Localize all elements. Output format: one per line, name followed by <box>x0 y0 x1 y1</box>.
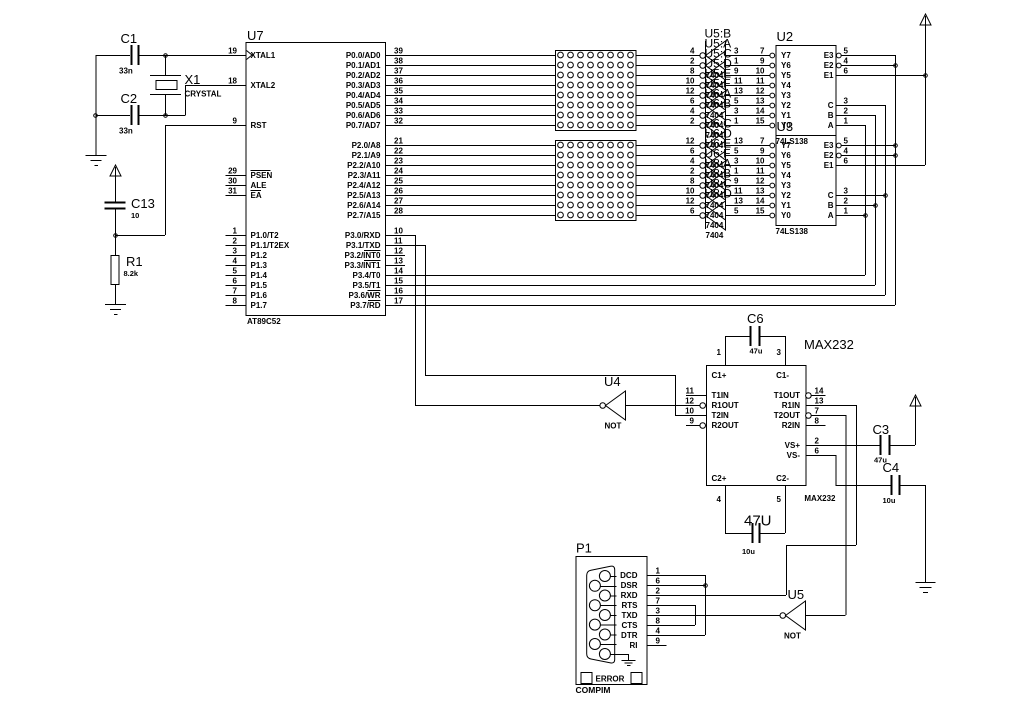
svg-text:T2IN: T2IN <box>712 411 730 420</box>
MAX232 pin 13 R1IN <box>782 397 824 410</box>
svg-text:6: 6 <box>690 207 695 216</box>
svg-text:ALE: ALE <box>251 181 268 190</box>
U2 pin Y5 <box>756 67 792 80</box>
svg-text:13: 13 <box>815 397 824 406</box>
U7 pin 36 P0.3/AD3 <box>346 77 405 90</box>
U7 pin 12 P3.2/INT0 <box>344 247 405 260</box>
svg-text:E1: E1 <box>824 71 834 80</box>
svg-text:33n: 33n <box>119 67 133 76</box>
node junction C1/X1 <box>164 54 168 58</box>
wire VS- to C4 <box>806 455 891 486</box>
ground left rail <box>86 156 107 166</box>
svg-text:7: 7 <box>760 137 765 146</box>
svg-text:1: 1 <box>734 167 739 176</box>
wire C1 left to rail <box>96 55 131 57</box>
svg-text:P2.4/A12: P2.4/A12 <box>347 181 381 190</box>
wire P0.5 to matrix1 row <box>385 105 555 107</box>
U7 pin 21 P2.0/A8 <box>352 137 405 150</box>
P1 ERROR indicator squares <box>581 673 642 684</box>
svg-text:RST: RST <box>251 121 267 130</box>
MAX232 pin 12 R1OUT <box>685 397 739 410</box>
svg-text:12: 12 <box>756 177 765 186</box>
wire matrix1 row 3 to inverter <box>636 85 700 87</box>
svg-text:13: 13 <box>734 87 743 96</box>
wire P2.5 to matrix2 row <box>385 195 555 197</box>
svg-text:5: 5 <box>734 207 739 216</box>
svg-text:31: 31 <box>228 187 237 196</box>
svg-text:12: 12 <box>756 87 765 96</box>
MAX232 pin 2 VS+ <box>785 437 820 450</box>
wire matrix1 row 0 to inverter <box>636 55 700 57</box>
svg-text:P0.1/AD1: P0.1/AD1 <box>346 61 381 70</box>
svg-text:6: 6 <box>844 67 849 76</box>
svg-text:3: 3 <box>844 187 849 196</box>
svg-text:DCD: DCD <box>620 571 638 580</box>
svg-text:37: 37 <box>394 67 403 76</box>
inverter 7404 gate U5:A row 65 (pins 2/1) <box>690 37 770 91</box>
svg-text:R1IN: R1IN <box>782 401 800 410</box>
connector P1 COMPIM body <box>576 541 648 696</box>
wire matrix2 row 6 to inverter <box>636 205 700 207</box>
svg-text:19: 19 <box>228 47 237 56</box>
svg-text:8: 8 <box>233 297 238 306</box>
svg-text:U8:D: U8:D <box>705 187 733 201</box>
svg-text:12: 12 <box>686 87 695 96</box>
P1 D-sub hole left 2 <box>589 600 616 611</box>
MAX232 pin 6 VS- <box>787 447 820 460</box>
svg-text:P2.0/A8: P2.0/A8 <box>352 141 381 150</box>
svg-text:10: 10 <box>394 227 403 236</box>
wire B select net (P3.5) <box>385 115 876 286</box>
svg-text:P3.0/RXD: P3.0/RXD <box>345 231 381 240</box>
U7 pin 34 P0.5/AD5 <box>346 97 405 110</box>
inverter 7404 gate U5:E row 95 (pins 12/13) <box>686 67 770 121</box>
svg-text:10: 10 <box>685 407 694 416</box>
svg-text:CRYSTAL: CRYSTAL <box>185 90 222 99</box>
svg-text:P1.6: P1.6 <box>251 291 268 300</box>
wire matrix1 row 5 to inverter <box>636 105 700 107</box>
svg-text:R1: R1 <box>126 254 143 269</box>
svg-text:3: 3 <box>233 247 238 256</box>
svg-text:P0.4/AD4: P0.4/AD4 <box>346 91 381 100</box>
svg-text:33: 33 <box>394 107 403 116</box>
svg-text:P1.1/T2EX: P1.1/T2EX <box>251 241 290 250</box>
svg-text:CTS: CTS <box>622 621 639 630</box>
svg-text:6: 6 <box>656 577 661 586</box>
resistor R1 <box>111 235 143 304</box>
svg-text:P2.7/A15: P2.7/A15 <box>347 211 381 220</box>
MAX232 pin 9 R2OUT <box>686 417 739 430</box>
power symbol above C13 <box>110 165 121 202</box>
wire matrix1 row 4 to inverter <box>636 95 700 97</box>
svg-text:E3: E3 <box>824 51 834 60</box>
wire ground rail left <box>95 55 97 155</box>
svg-text:8: 8 <box>690 67 695 76</box>
wire P2.7 to matrix2 row <box>385 215 555 217</box>
U7 pin 31 EA <box>226 187 262 200</box>
wire C2 left to rail <box>96 115 131 117</box>
svg-text:1: 1 <box>734 117 739 126</box>
svg-text:C1+: C1+ <box>712 371 727 380</box>
svg-text:30: 30 <box>228 177 237 186</box>
IC U7 AT89C52 microcontroller body <box>246 28 386 326</box>
capacitor C2 <box>119 91 139 136</box>
wire C1 right to XTAL1 <box>139 55 246 57</box>
svg-text:ERROR: ERROR <box>596 675 625 684</box>
wire C select net (P3.6) <box>385 105 886 296</box>
U3 pin Y6 <box>760 147 791 160</box>
U7 pin 11 P3.1/TXD <box>346 237 405 250</box>
svg-text:XTAL2: XTAL2 <box>251 81 276 90</box>
wire RTS-CTS loop <box>667 605 696 626</box>
svg-text:3: 3 <box>656 607 661 616</box>
U7 pin 27 P2.6/A14 <box>347 197 405 210</box>
svg-text:8: 8 <box>815 417 820 426</box>
wire P3.1 TXD to T2IN <box>385 245 706 416</box>
svg-text:26: 26 <box>394 187 403 196</box>
svg-text:C13: C13 <box>131 196 155 211</box>
U3 pin Y3 <box>756 177 792 190</box>
capacitor 47U <box>725 513 785 557</box>
svg-text:2: 2 <box>690 167 695 176</box>
U7 pin 9 RST <box>226 117 267 130</box>
svg-text:9: 9 <box>734 67 739 76</box>
svg-text:14: 14 <box>756 197 765 206</box>
power symbol at C3 <box>910 395 921 445</box>
svg-text:T1IN: T1IN <box>712 391 730 400</box>
U2 pin Y3 <box>756 87 792 100</box>
inverter stack inner vertical <box>705 41 707 229</box>
svg-text:14: 14 <box>815 387 824 396</box>
U7 pin 3 P1.2 <box>226 247 268 260</box>
P1 pin 6 DSR <box>621 577 667 590</box>
U3 pin 5 E3 <box>824 137 849 150</box>
svg-text:5: 5 <box>844 47 849 56</box>
P1 pin 8 CTS <box>622 617 667 630</box>
svg-text:13: 13 <box>756 187 765 196</box>
capacitor C13 <box>105 196 155 235</box>
wire P0.2 to matrix1 row <box>385 75 555 77</box>
wire U3 E1 to power <box>836 165 926 167</box>
wire C4 to ground <box>900 485 926 582</box>
svg-text:47u: 47u <box>750 347 763 356</box>
wire DCD/DSR/DTR tie <box>667 575 706 636</box>
svg-text:74LS138: 74LS138 <box>776 227 809 236</box>
wire matrix2 row 3 to inverter <box>636 175 700 177</box>
svg-text:C2-: C2- <box>776 474 789 483</box>
svg-text:39: 39 <box>394 47 403 56</box>
svg-text:DSR: DSR <box>621 581 638 590</box>
svg-text:Y3: Y3 <box>781 91 791 100</box>
wire VS+ to C3 <box>806 445 880 447</box>
wire P2.1 to matrix2 row <box>385 155 555 157</box>
svg-text:23: 23 <box>394 157 403 166</box>
U7 pin 4 P1.3 <box>226 257 268 270</box>
MAX232 pins 4 C2+ / 5 C2- <box>712 474 790 533</box>
svg-text:13: 13 <box>394 257 403 266</box>
svg-text:14: 14 <box>756 107 765 116</box>
svg-text:2: 2 <box>690 57 695 66</box>
svg-text:E3: E3 <box>824 141 834 150</box>
P1 D-sub hole right 1 <box>599 571 616 582</box>
U7 pin 30 ALE <box>226 177 268 190</box>
wire P2.2 to matrix2 row <box>385 165 555 167</box>
svg-text:P1.3: P1.3 <box>251 261 268 270</box>
svg-text:MAX232: MAX232 <box>804 337 854 352</box>
svg-text:11: 11 <box>394 237 403 246</box>
svg-text:4: 4 <box>656 627 661 636</box>
svg-text:E2: E2 <box>824 61 834 70</box>
svg-text:P0.3/AD3: P0.3/AD3 <box>346 81 381 90</box>
P1 D-sub hole right 3 <box>599 610 616 621</box>
svg-text:P0.5/AD5: P0.5/AD5 <box>346 101 381 110</box>
U2 pin 6 E1 <box>824 67 849 80</box>
wire P0.3 to matrix1 row <box>385 85 555 87</box>
P1 pin 9 RI <box>630 637 667 650</box>
svg-text:P3.3/INT1: P3.3/INT1 <box>344 261 381 270</box>
svg-text:A: A <box>828 211 834 220</box>
capacitor C4 <box>883 460 900 505</box>
U2 pin Y2 <box>756 97 792 110</box>
inverter 7404 gate U8:D row 215 (pins 6/5) <box>690 187 770 241</box>
svg-text:5: 5 <box>233 267 238 276</box>
svg-text:5: 5 <box>844 137 849 146</box>
node junction power/E1 <box>924 74 928 78</box>
svg-text:3: 3 <box>777 348 782 357</box>
U2 pin Y1 <box>756 107 792 120</box>
U7 pin 7 P1.6 <box>226 287 268 300</box>
svg-text:E1: E1 <box>824 161 834 170</box>
svg-text:16: 16 <box>394 287 403 296</box>
P1 D-sub outline <box>587 566 615 663</box>
P1 pin 2 RXD <box>621 587 667 600</box>
wire TXD from U5 output <box>667 615 780 617</box>
svg-text:9: 9 <box>233 117 238 126</box>
svg-text:9: 9 <box>656 637 661 646</box>
svg-text:33n: 33n <box>119 127 133 136</box>
svg-text:Y6: Y6 <box>781 61 791 70</box>
svg-text:1: 1 <box>233 227 238 236</box>
P1 internal ground <box>622 654 636 666</box>
U7 pin 37 P0.2/AD2 <box>346 67 405 80</box>
svg-text:13: 13 <box>734 197 743 206</box>
svg-text:P3.1/TXD: P3.1/TXD <box>346 241 381 250</box>
svg-text:3: 3 <box>734 107 739 116</box>
svg-text:47U: 47U <box>744 513 772 530</box>
svg-text:4: 4 <box>233 257 238 266</box>
node junction E net U3.E2 <box>894 154 898 158</box>
svg-text:P2.2/A10: P2.2/A10 <box>347 161 381 170</box>
node junction rail/C2 <box>94 114 98 118</box>
wire matrix1 row 6 to inverter <box>636 115 700 117</box>
wire P2.0 to matrix2 row <box>385 145 555 147</box>
svg-text:Y7: Y7 <box>781 141 791 150</box>
U2 pin Y0 <box>756 117 792 130</box>
U7 pin 17 P3.7/RD <box>350 297 405 310</box>
svg-text:15: 15 <box>394 277 403 286</box>
wire matrix2 row 5 to inverter <box>636 195 700 197</box>
svg-text:R2IN: R2IN <box>782 421 800 430</box>
svg-text:Y1: Y1 <box>781 201 791 210</box>
svg-text:XTAL1: XTAL1 <box>251 51 276 60</box>
U7 pin 26 P2.5/A13 <box>347 187 405 200</box>
svg-text:1: 1 <box>844 207 849 216</box>
svg-text:25: 25 <box>394 177 403 186</box>
svg-text:8.2k: 8.2k <box>124 269 139 278</box>
U7 pin 16 P3.6/WR <box>348 287 405 300</box>
wire U2 E2 stub <box>841 65 895 67</box>
U7 pin 23 P2.2/A10 <box>347 157 405 170</box>
svg-text:P0.7/AD7: P0.7/AD7 <box>346 121 381 130</box>
U7 pin 8 P1.7 <box>226 297 268 310</box>
svg-text:RI: RI <box>630 641 638 650</box>
inverter 7404 gate U5:F row 105 (pins 6/5) <box>690 77 770 131</box>
svg-text:Y2: Y2 <box>781 191 791 200</box>
U7 pin 22 P2.1/A9 <box>352 147 405 160</box>
svg-text:7: 7 <box>233 287 238 296</box>
wire matrix2 row 2 to inverter <box>636 165 700 167</box>
wire matrix2 row 7 to inverter <box>636 215 700 217</box>
svg-text:9: 9 <box>734 177 739 186</box>
svg-text:X1: X1 <box>185 72 201 87</box>
inverter 7404 gate U5:D row 85 (pins 10/11) <box>686 57 770 111</box>
svg-text:NOT: NOT <box>605 422 622 431</box>
U7 pin 15 P3.5/T1 <box>352 277 405 290</box>
svg-text:3: 3 <box>734 157 739 166</box>
svg-text:36: 36 <box>394 77 403 86</box>
wire U3 A stub <box>836 215 866 217</box>
svg-text:C1-: C1- <box>776 371 789 380</box>
svg-text:U3: U3 <box>777 119 794 134</box>
svg-text:2: 2 <box>656 587 661 596</box>
U3 pin 3 C <box>828 187 849 200</box>
svg-text:Y4: Y4 <box>781 171 791 180</box>
svg-text:18: 18 <box>228 77 237 86</box>
svg-text:10: 10 <box>686 77 695 86</box>
svg-text:C1: C1 <box>121 31 138 46</box>
MAX232 pin 7 T2OUT <box>774 407 820 420</box>
LED matrix display 2 <box>556 141 637 221</box>
svg-text:P0.0/AD0: P0.0/AD0 <box>346 51 381 60</box>
inverter 7404 gate U8:C row 205 (pins 12/13) <box>686 177 770 231</box>
svg-text:10: 10 <box>131 211 139 220</box>
svg-text:C3: C3 <box>873 422 890 437</box>
svg-text:U7: U7 <box>247 28 264 43</box>
svg-text:B: B <box>828 111 834 120</box>
decoder U2 74LS138 body <box>776 29 837 146</box>
svg-text:13: 13 <box>756 97 765 106</box>
svg-text:11: 11 <box>756 167 765 176</box>
svg-text:B: B <box>828 201 834 210</box>
capacitor C3 <box>873 422 916 465</box>
U7 pin 33 P0.6/AD6 <box>346 107 405 120</box>
svg-text:4: 4 <box>844 147 849 156</box>
svg-text:9: 9 <box>760 147 765 156</box>
wire P0.6 to matrix1 row <box>385 115 555 117</box>
svg-text:12: 12 <box>394 247 403 256</box>
svg-text:P1.2: P1.2 <box>251 251 268 260</box>
svg-text:10: 10 <box>686 187 695 196</box>
svg-text:2: 2 <box>690 117 695 126</box>
svg-text:7: 7 <box>760 47 765 56</box>
node junction C2/X1 <box>164 114 168 118</box>
svg-text:P2.3/A11: P2.3/A11 <box>348 171 381 180</box>
svg-text:11: 11 <box>756 77 765 86</box>
svg-text:P1: P1 <box>576 541 592 556</box>
svg-text:DTR: DTR <box>621 631 638 640</box>
svg-text:RXD: RXD <box>621 591 638 600</box>
node junction B net <box>874 204 878 208</box>
svg-text:P2.1/A9: P2.1/A9 <box>352 151 381 160</box>
U2 pin Y4 <box>756 77 791 90</box>
wire XTAL2 <box>185 85 246 115</box>
U2 pin 1 A <box>828 117 849 130</box>
LED matrix display 1 <box>556 51 637 131</box>
svg-text:12: 12 <box>685 397 694 406</box>
svg-text:C6: C6 <box>747 311 764 326</box>
svg-text:C4: C4 <box>883 460 900 475</box>
svg-text:TXD: TXD <box>622 611 638 620</box>
svg-text:12: 12 <box>686 197 695 206</box>
U7 pin 38 P0.1/AD1 <box>346 57 405 70</box>
wire P0.4 to matrix1 row <box>385 95 555 97</box>
wire P2.6 to matrix2 row <box>385 205 555 207</box>
U2 pin Y6 <box>760 57 791 70</box>
U3 pin Y1 <box>756 197 792 210</box>
U3 pin 4 E2 <box>824 147 849 160</box>
wire U3 E3 stub <box>841 145 895 147</box>
U7 pin 13 P3.3/INT1 <box>344 257 405 270</box>
svg-text:10u: 10u <box>742 547 755 556</box>
svg-text:6: 6 <box>690 147 695 156</box>
inverter 7404 gate U6:F row 175 (pins 2/1) <box>690 147 770 201</box>
P1 D-sub hole right 4 <box>599 629 616 640</box>
U2 pin 2 B <box>828 107 849 120</box>
P1 D-sub hole left 1 <box>589 580 616 591</box>
MAX232 pins 1 C1+ / 3 C1- <box>712 336 790 380</box>
P1 D-sub hole left 4 <box>589 639 616 650</box>
P1 D-sub hole right 2 <box>599 590 616 601</box>
U7 pin 6 P1.5 <box>226 277 268 290</box>
inverter 7404 gate U6:E row 165 (pins 4/3) <box>690 137 770 191</box>
svg-text:3: 3 <box>734 47 739 56</box>
svg-text:Y5: Y5 <box>781 71 791 80</box>
svg-text:11: 11 <box>734 187 743 196</box>
U7 pin 19 XTAL1 <box>226 47 276 60</box>
svg-text:11: 11 <box>734 77 743 86</box>
inverter 7404 gate U5:C row 75 (pins 8/9) <box>690 47 770 101</box>
node junction DSR tie <box>704 584 708 588</box>
U7 pin 14 P3.4/T0 <box>352 267 405 280</box>
crystal X1 <box>150 55 222 115</box>
svg-text:P2.6/A14: P2.6/A14 <box>347 201 381 210</box>
svg-text:P2.5/A13: P2.5/A13 <box>347 191 381 200</box>
svg-text:15: 15 <box>756 117 765 126</box>
svg-text:VS+: VS+ <box>785 441 801 450</box>
svg-text:P3.7/RD: P3.7/RD <box>350 301 380 310</box>
svg-text:2: 2 <box>815 437 820 446</box>
svg-text:P0.6/AD6: P0.6/AD6 <box>346 111 381 120</box>
svg-text:9: 9 <box>760 57 765 66</box>
MAX232 pin 8 R2IN <box>782 417 826 430</box>
decoder U3 74LS138 body <box>776 119 837 236</box>
node junction C13/R1/RST <box>114 234 118 238</box>
IC U6 MAX232 body <box>707 337 854 503</box>
svg-text:4: 4 <box>844 57 849 66</box>
svg-text:5: 5 <box>734 147 739 156</box>
svg-text:2: 2 <box>844 107 849 116</box>
svg-text:T1OUT: T1OUT <box>774 391 800 400</box>
